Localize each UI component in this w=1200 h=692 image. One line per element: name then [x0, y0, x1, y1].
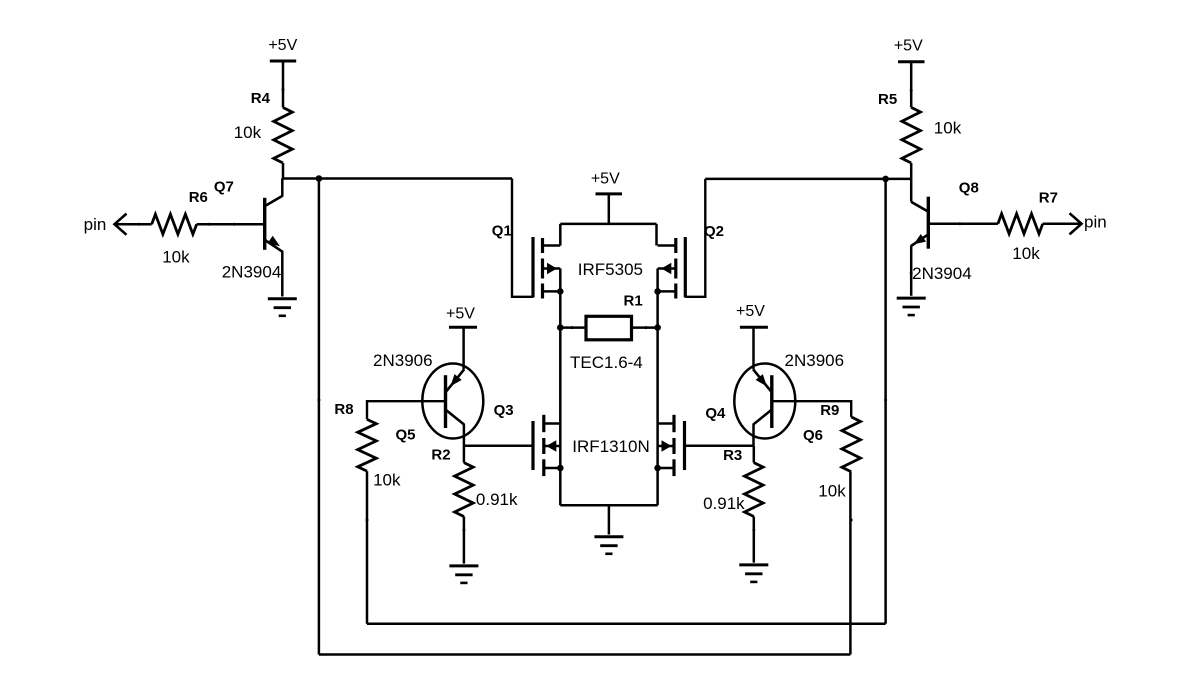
wire Q5 base to R8	[367, 401, 446, 419]
wire Q1 gate from node A	[512, 179, 533, 297]
resistor R7	[998, 214, 1043, 234]
wire rail to Q1 source stub	[559, 224, 562, 246]
svg-text:0.91k: 0.91k	[703, 494, 745, 513]
transistor Q1 (IRF5305 P-MOSFET)	[533, 237, 560, 299]
svg-text:0.91k: 0.91k	[476, 490, 518, 509]
+5V supply symbol (top center)	[591, 171, 622, 224]
wire R5 bottom to node B	[910, 163, 913, 179]
svg-text:R7: R7	[1039, 190, 1058, 207]
resistor R8	[358, 419, 377, 471]
transistor Q6 (2N3906 PNP, mirrored)	[734, 364, 795, 446]
svg-text:pin: pin	[1084, 212, 1107, 231]
wire Q6 collector to Q4 gate	[685, 445, 754, 448]
transistor Q8 (2N3904 NPN, mirrored)	[911, 179, 928, 296]
svg-text:+5V: +5V	[736, 303, 765, 320]
ground (below R2)	[449, 564, 478, 567]
wire R4 bottom to node A	[282, 163, 285, 179]
transistor Q7 (2N3904 NPN)	[265, 179, 283, 297]
ground (below R3)	[739, 563, 768, 566]
svg-text:+5V: +5V	[268, 37, 297, 54]
transistor Q4 (IRF1310N N-MOSFET, mirrored)	[658, 415, 685, 476]
svg-text:pin: pin	[84, 215, 107, 234]
svg-text:10k: 10k	[1012, 244, 1040, 263]
pin terminal arrow (left)	[115, 214, 127, 235]
svg-text:10k: 10k	[234, 123, 262, 142]
transistor Q3 (IRF1310N N-MOSFET)	[533, 415, 560, 476]
wire R9 bottom riser	[849, 472, 852, 655]
wire Q6 base to R9	[772, 401, 851, 417]
node dot R1 right	[654, 324, 661, 331]
ground (center, Q3/Q4 sources)	[594, 535, 623, 538]
ground (Q8 emitter)	[897, 297, 926, 300]
svg-text:TEC1.6-4: TEC1.6-4	[570, 353, 643, 372]
svg-text:Q7: Q7	[214, 179, 234, 196]
resistor R9	[842, 417, 861, 472]
svg-text:2N3904: 2N3904	[912, 264, 972, 283]
wire source rail to center ground	[608, 505, 611, 534]
svg-text:IRF1310N: IRF1310N	[572, 437, 649, 456]
svg-text:10k: 10k	[162, 248, 190, 267]
svg-text:IRF5305: IRF5305	[578, 260, 643, 279]
wire Q3/Q4 source rail	[560, 504, 657, 507]
svg-text:R1: R1	[624, 292, 643, 309]
svg-text:+5V: +5V	[591, 171, 620, 188]
node dot R1 left	[557, 324, 564, 331]
wire Q1 drain / TEC left vertical	[559, 269, 562, 506]
+5V supply symbol (above R4)	[268, 37, 297, 108]
wire Q2 drain / TEC right vertical	[656, 269, 659, 506]
node dot Q4 source	[654, 465, 661, 472]
node A junction dot	[316, 175, 323, 182]
wire Q2 gate from node B	[685, 179, 705, 297]
+5V supply symbol (above R5)	[894, 37, 925, 107]
resistor R6	[152, 214, 197, 234]
svg-text:Q4: Q4	[705, 405, 726, 422]
resistor R2	[455, 446, 474, 564]
node dot Q2 drain	[654, 288, 661, 295]
svg-text:10k: 10k	[818, 481, 846, 500]
svg-text:R9: R9	[820, 402, 839, 419]
svg-text:2N3906: 2N3906	[785, 351, 845, 370]
svg-text:R8: R8	[334, 401, 353, 418]
+5V supply symbol (above Q6)	[736, 303, 768, 369]
svg-text:R3: R3	[723, 447, 742, 464]
resistor R1 (TEC element, box)	[560, 316, 657, 340]
wire Q1/Q2 source rail	[560, 223, 656, 226]
wire R7 to pin arrow	[1043, 223, 1082, 226]
wire anchor dots	[138, 88, 962, 532]
svg-text:Q3: Q3	[494, 402, 514, 419]
svg-text:+5V: +5V	[446, 306, 475, 323]
transistor Q2 (IRF5305 P-MOSFET, mirrored)	[658, 237, 686, 299]
svg-text:Q2: Q2	[704, 223, 724, 240]
svg-text:2N3906: 2N3906	[373, 351, 433, 370]
resistor R5	[902, 107, 921, 163]
wire node A rail (Q7 collector to Q1 gate wire)	[283, 177, 513, 180]
svg-text:Q8: Q8	[959, 180, 979, 197]
node dot Q3 source	[557, 465, 564, 472]
svg-text:+5V: +5V	[894, 37, 923, 54]
transistor Q5 (2N3906 PNP)	[422, 364, 483, 446]
svg-text:10k: 10k	[934, 118, 962, 137]
ground (Q7 emitter)	[268, 297, 297, 300]
svg-text:R5: R5	[878, 91, 897, 108]
wire Q7 base	[197, 223, 265, 226]
wire R6 to pin arrow	[115, 223, 152, 226]
svg-text:R2: R2	[431, 447, 450, 464]
node dot Q1 drain	[557, 288, 564, 295]
wire rail to Q2 source stub	[655, 224, 658, 246]
wire bottom inner crossover (R8 to node B)	[367, 622, 886, 625]
wire Q5 collector to Q3 gate	[464, 445, 533, 448]
resistor R3	[745, 446, 764, 563]
wire node B rail (Q2 gate wire to Q8 collector)	[705, 178, 911, 181]
node B junction dot	[882, 176, 889, 183]
wire node B down riser	[884, 179, 887, 624]
wire R8 bottom to crossover	[366, 471, 369, 624]
svg-text:R6: R6	[189, 189, 208, 206]
svg-text:Q5: Q5	[395, 427, 415, 444]
+5V supply symbol (above Q5)	[446, 306, 477, 370]
svg-text:R4: R4	[251, 90, 271, 107]
wire node A down to bottom crossover	[318, 179, 321, 655]
svg-text:Q6: Q6	[803, 427, 823, 444]
resistor R4	[274, 108, 293, 164]
wire Q8 base	[928, 223, 998, 226]
svg-text:10k: 10k	[373, 471, 401, 490]
svg-text:Q1: Q1	[492, 223, 512, 240]
svg-text:2N3904: 2N3904	[222, 263, 282, 282]
pin terminal arrow (right)	[1070, 213, 1082, 234]
wire bottom outer crossover (node A to R9 bottom)	[319, 653, 851, 656]
